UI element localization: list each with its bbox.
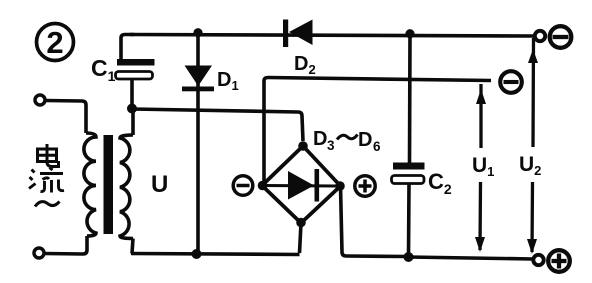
wire: bridge left vertex to minus output rail [264,78,491,184]
bridge rectifier D3~D6 diamond [262,146,341,223]
measurement arrow U1 lower segment [475,182,485,252]
measurement arrow U2 lower segment [527,182,537,254]
node: bridge left vertex dot [258,181,268,191]
node: AC bottom rail / D1 junction dot [192,249,202,259]
node: DC bottom rail / C2 junction dot [404,252,414,262]
transformer T core [104,135,114,234]
diode D2 (pointing left) cathode bar [283,20,288,48]
bridge minus polarity symbol [233,176,253,196]
label: AC tilde ~ [35,202,60,207]
wire: bottom-left terminal to transformer primary bottom [45,236,88,254]
measurement arrow U1 upper segment [476,84,486,148]
minus output symbol (top-right) [550,26,572,48]
label: Chinese 电 (dian) [38,144,59,167]
wire: bridge right vertex down to DC bottom rail [341,186,409,257]
wire: AC bottom rail (secondary to bridge bottom) [131,254,300,255]
wire: top rail from C1 to top-right terminal [130,35,534,37]
transformer T primary winding [84,133,96,236]
AC input terminal (bottom-left) [34,248,44,258]
plus output symbol (bottom-right) [548,250,570,272]
node: bridge right vertex dot [335,181,345,191]
DC output terminal (top-right, small circle) [535,31,545,41]
svg-text:2: 2 [46,25,63,60]
DC output terminal (bottom-right, small circle) [533,255,543,265]
minus output symbol (mid right) [500,71,522,93]
wire: DC bottom rail to bottom-right terminal [408,257,533,259]
diode D1 cathode bar [182,87,214,92]
node: bridge bottom vertex dot [296,218,306,228]
bridge internal diode lead [264,184,336,188]
capacitor C1 bottom lead [130,79,134,108]
measurement arrow U2 upper segment [528,38,538,147]
wire: node A to bridge top vertex [132,109,303,141]
capacitor C1 plate (+ solid) [117,59,155,66]
wire: top-left terminal to transformer primary top [46,101,87,134]
node: C1/secondary junction dot [127,104,137,114]
transformer T secondary winding [120,135,133,239]
node: top rail / D1 junction dot [193,28,202,37]
capacitor C2 plate (- hollow) [392,176,425,184]
capacitor C1 top lead and top wire corner [121,35,134,62]
bridge plus polarity symbol [355,176,375,196]
svg-text:U: U [151,171,168,198]
capacitor C1 plate (- hollow) [116,72,153,80]
node: top rail / C2 junction dot [405,29,414,38]
capacitor C2 branch wire upper [408,34,412,163]
capacitor C2 bottom lead [407,184,411,258]
bridge internal diode cathode bar [315,169,320,202]
figure number 2 (circled) [37,24,74,61]
bridge internal diode triangle [288,171,314,200]
wire: secondary bottom lead down to AC rail [132,239,133,254]
wire: bridge bottom vertex down to AC bottom rail [300,223,302,253]
label: Chinese 流 (liu) [29,168,64,193]
diode D2 triangle [289,20,313,46]
diode D1 branch wire (top rail to bottom rail) [196,32,200,254]
wire: secondary top lead up to node A [131,108,135,135]
label D3~D6 tilde [337,135,358,140]
diode D1 triangle (pointing down) [185,66,213,87]
node: bridge top vertex dot [298,141,308,151]
capacitor C2 plate (+ solid) [393,163,425,170]
AC input terminal (top-left) [35,95,45,105]
